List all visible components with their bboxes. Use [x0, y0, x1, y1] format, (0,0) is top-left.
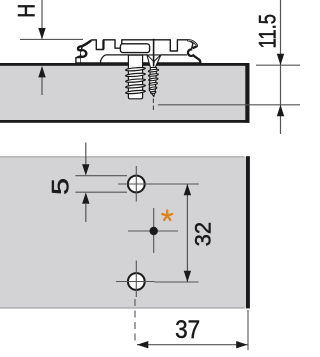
svg-text:37: 37	[175, 316, 200, 344]
svg-text:5: 5	[48, 178, 75, 195]
svg-text:11.5: 11.5	[255, 14, 282, 49]
svg-text:H: H	[14, 4, 41, 18]
svg-text:32: 32	[190, 222, 215, 247]
